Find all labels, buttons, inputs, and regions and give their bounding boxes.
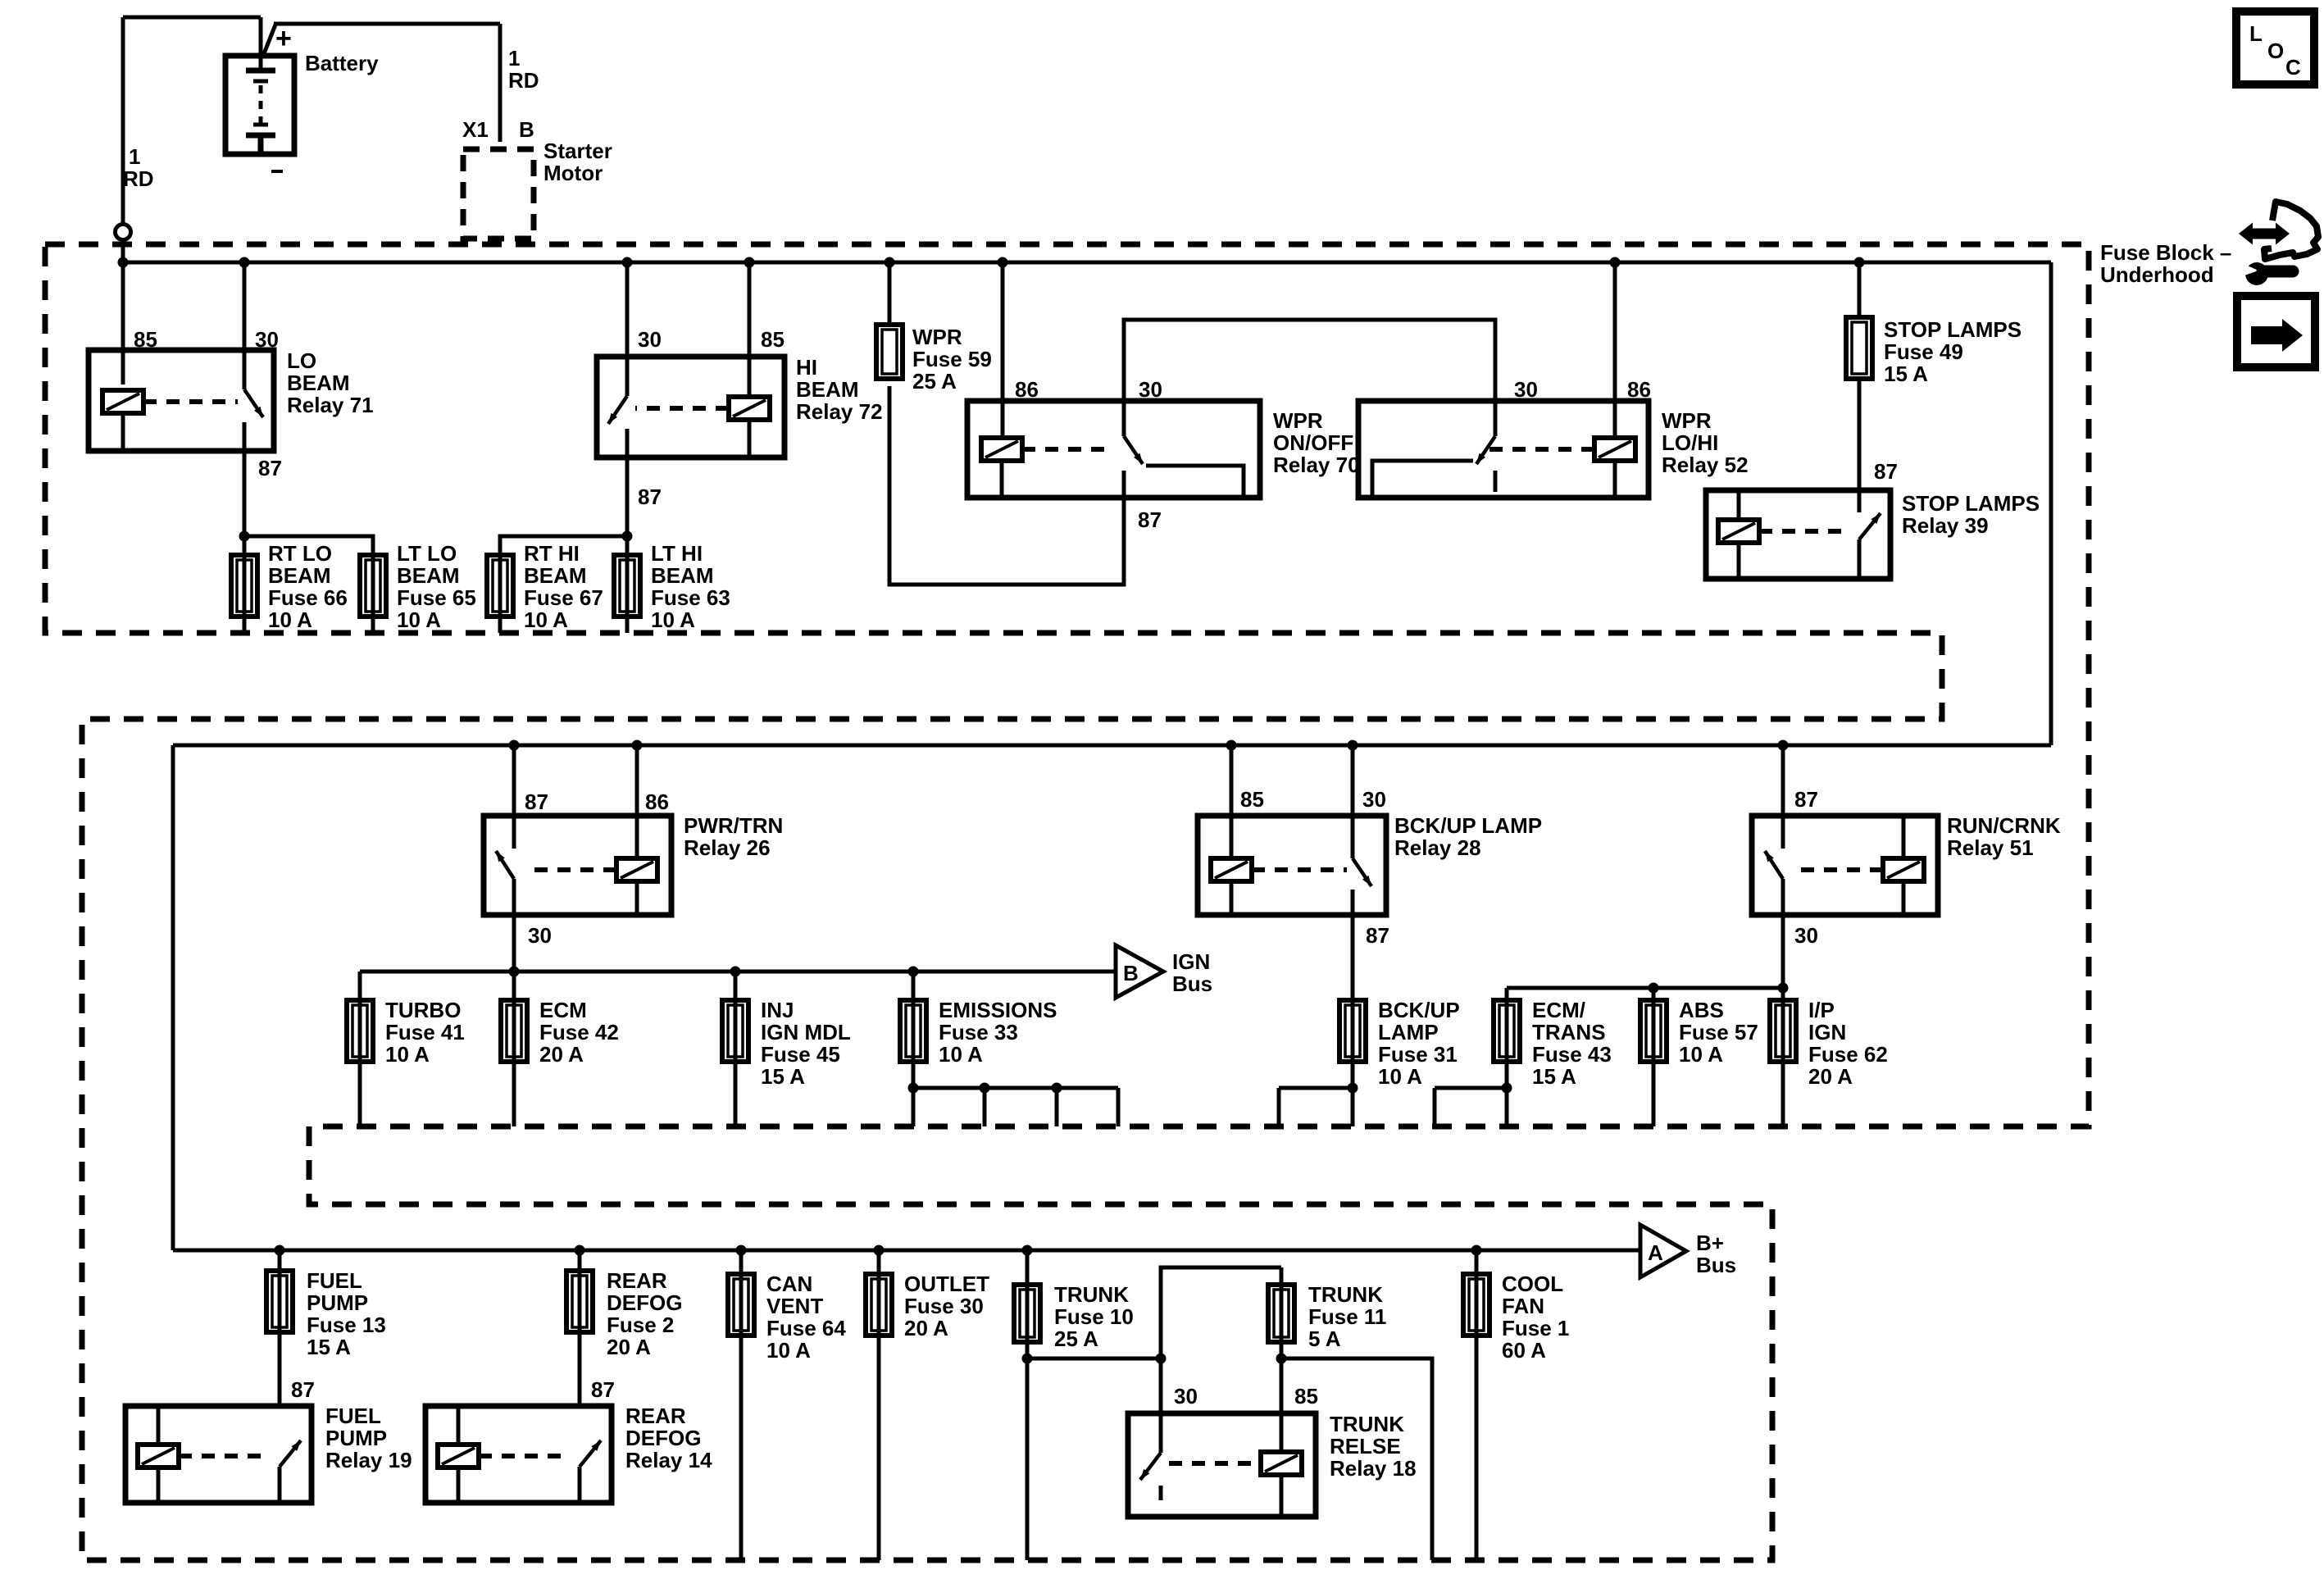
- svg-text:Bus: Bus: [1172, 972, 1212, 996]
- svg-text:FAN: FAN: [1502, 1294, 1544, 1318]
- fuse 64 CAN VENT: [728, 1274, 754, 1336]
- wire top bus right drop to middle bus: [2049, 262, 2053, 745]
- relay 72 coil: [729, 397, 770, 420]
- svg-text:Fuse 66: Fuse 66: [268, 585, 348, 610]
- fuse 49 STOP LAMPS: [1846, 317, 1872, 379]
- battery B1 negative plate short: [253, 123, 268, 127]
- svg-text:10 A: 10 A: [766, 1338, 811, 1363]
- junction IGN bus at fuse33: [908, 967, 919, 977]
- svg-text:LT LO: LT LO: [397, 541, 457, 566]
- svg-text:Fuse 31: Fuse 31: [1378, 1042, 1458, 1067]
- svg-text:BEAM: BEAM: [397, 563, 460, 588]
- fuse 1 COOL FAN: [1463, 1274, 1489, 1336]
- junction B+ bus at fuse30: [874, 1245, 885, 1256]
- wire battery positive drop: [259, 17, 263, 71]
- junction emissions manifold c: [1052, 1083, 1062, 1094]
- svg-text:85: 85: [1294, 1384, 1318, 1408]
- svg-text:IGN: IGN: [1172, 949, 1210, 974]
- wire fuse57 through: [1652, 988, 1656, 1126]
- svg-text:20 A: 20 A: [607, 1335, 651, 1359]
- relay 51 switch stub: [1781, 879, 1785, 915]
- label fuse 42: [539, 998, 619, 1067]
- relay 70 coil: [981, 438, 1022, 461]
- wire fuse30 through: [877, 1250, 881, 1560]
- label fuse 11: [1308, 1282, 1386, 1351]
- relay 72 switch blade: [608, 396, 627, 424]
- wire run/crnk sub-bus: [1507, 986, 1783, 990]
- svg-text:87: 87: [525, 789, 548, 814]
- label fuse 2: [607, 1268, 682, 1359]
- junction top bus at relay71 pin30: [239, 257, 250, 268]
- svg-text:25 A: 25 A: [912, 369, 957, 394]
- wire fuse42 through: [512, 972, 516, 1126]
- svg-text:PUMP: PUMP: [325, 1426, 387, 1450]
- svg-text:VENT: VENT: [766, 1294, 823, 1318]
- svg-text:BEAM: BEAM: [268, 563, 331, 588]
- junction middle bus at relay28 pin85: [1226, 740, 1237, 751]
- svg-text:INJ: INJ: [761, 998, 794, 1022]
- relay 14 switch blade: [580, 1440, 601, 1467]
- svg-text:10 A: 10 A: [1679, 1042, 1723, 1067]
- svg-text:30: 30: [1139, 377, 1162, 402]
- relay 14 switch stub: [578, 1467, 582, 1503]
- svg-text:10 A: 10 A: [385, 1042, 430, 1067]
- relay 52 switch stub: [1494, 471, 1498, 492]
- label fuse 45: [761, 998, 851, 1089]
- label fuse 49: [1884, 317, 2022, 386]
- svg-text:15 A: 15 A: [307, 1335, 351, 1359]
- svg-text:87: 87: [1794, 787, 1818, 812]
- wire fuse64 through: [739, 1250, 744, 1560]
- wire fuse11 branch right: [1281, 1358, 1432, 1560]
- svg-text:87: 87: [258, 456, 282, 480]
- wire fuse66 drop: [243, 536, 247, 633]
- label B+ Bus: [1696, 1231, 1736, 1277]
- svg-text:OUTLET: OUTLET: [904, 1272, 989, 1296]
- svg-text:BEAM: BEAM: [287, 371, 350, 395]
- junction top bus at relay52 pin86: [1610, 257, 1621, 268]
- wire fuse41 through: [358, 1000, 362, 1126]
- relay 52 dashed link: [1485, 447, 1594, 452]
- relay 70 switch stub: [1122, 471, 1126, 498]
- junction middle bus at relay26 pin86: [632, 740, 643, 751]
- svg-text:1: 1: [129, 144, 140, 169]
- fuse 11 TRUNK: [1268, 1285, 1294, 1342]
- wire fuse67 drop: [498, 555, 503, 633]
- relay 70 coil lower wire: [1000, 461, 1004, 498]
- svg-text:TRUNK: TRUNK: [1330, 1412, 1404, 1436]
- wire fuse63 drop: [625, 536, 630, 633]
- junction middle bus at relay26 pin87: [509, 740, 520, 751]
- wire fuse31 through: [1351, 1000, 1355, 1126]
- fuse 59 WPR: [876, 325, 903, 379]
- wire middle bus: [173, 744, 2051, 748]
- label fuse 65: [397, 541, 476, 632]
- junction relay71 output: [239, 531, 250, 542]
- wire sub-bus drop to fuse43: [1505, 988, 1509, 1000]
- junction top bus at relay70 pin86: [998, 257, 1008, 268]
- relay 26 pin86 wire: [635, 745, 639, 858]
- wire fuse49 to relay39: [1858, 379, 1862, 512]
- junction top bus at relay72 pin30: [622, 257, 633, 268]
- relay 14 dashed link: [479, 1454, 571, 1458]
- svg-text:Fuse 64: Fuse 64: [766, 1316, 846, 1340]
- svg-text:O: O: [2267, 39, 2284, 63]
- wire IGN bus: [360, 970, 1116, 974]
- relay 26 PWR/TRN box: [484, 816, 671, 915]
- relay 39 coil: [1718, 520, 1759, 543]
- relay 28 pin85 wire: [1230, 745, 1234, 858]
- battery B1 negative stub: [258, 135, 264, 154]
- relay 28 coil: [1211, 858, 1252, 881]
- wire fuse49 drop: [1858, 262, 1862, 317]
- junction B+ bus at fuse13: [275, 1245, 285, 1256]
- junction relay18 pin30 tee: [1156, 1354, 1167, 1364]
- svg-text:CAN: CAN: [766, 1272, 812, 1296]
- wire battery positive feed to fuse block (1 RD left branch): [123, 16, 261, 20]
- fuse 30 OUTLET: [866, 1274, 892, 1336]
- relay 52 contact 87 path: [1372, 461, 1473, 495]
- svg-text:LO/HI: LO/HI: [1662, 430, 1718, 455]
- relay 52 WPR LO/HI box: [1358, 401, 1649, 498]
- relay 26 switch stub: [512, 879, 516, 915]
- svg-text:10 A: 10 A: [268, 607, 312, 632]
- svg-text:Relay 71: Relay 71: [287, 393, 374, 417]
- junction emissions manifold a: [908, 1083, 919, 1094]
- svg-text:86: 86: [1627, 377, 1651, 402]
- svg-text:RD: RD: [508, 68, 539, 93]
- svg-text:10 A: 10 A: [397, 607, 441, 632]
- junction relay72 output: [622, 531, 633, 542]
- label fuse 66: [268, 541, 348, 632]
- label fuse 59: [912, 325, 992, 394]
- relay 14 REAR DEFOG box: [425, 1406, 612, 1503]
- svg-text:EMISSIONS: EMISSIONS: [939, 998, 1057, 1022]
- wire emissions manifold: [913, 1086, 1118, 1090]
- junction top bus at fuse59: [885, 257, 895, 268]
- svg-text:15 A: 15 A: [1532, 1064, 1576, 1089]
- relay 52 pin86 wire: [1613, 262, 1617, 438]
- svg-text:87: 87: [591, 1377, 615, 1402]
- svg-text:TURBO: TURBO: [385, 998, 461, 1022]
- svg-text:A: A: [1648, 1240, 1663, 1265]
- relay 19 dashed link: [179, 1454, 271, 1458]
- relay 72 dashed link: [635, 406, 729, 411]
- svg-text:20 A: 20 A: [539, 1042, 584, 1067]
- svg-text:Fuse 30: Fuse 30: [904, 1294, 984, 1318]
- label fuse 33: [939, 998, 1057, 1067]
- relay 28 coil lower wire: [1230, 881, 1234, 915]
- relay 70 WPR ON/OFF box: [967, 401, 1260, 498]
- svg-text:20 A: 20 A: [1808, 1064, 1853, 1089]
- svg-text:30: 30: [255, 327, 279, 352]
- label fuse 67: [524, 541, 603, 632]
- svg-text:RT HI: RT HI: [524, 541, 580, 566]
- wire fuse43 stub: [1433, 1088, 1437, 1126]
- svg-text:ON/OFF: ON/OFF: [1273, 430, 1353, 455]
- svg-text:FUEL: FUEL: [307, 1268, 362, 1293]
- label relay 70 name: [1273, 408, 1360, 477]
- svg-text:87: 87: [638, 485, 662, 509]
- svg-text:Fuse 11: Fuse 11: [1308, 1304, 1386, 1329]
- svg-text:Fuse 2: Fuse 2: [607, 1313, 674, 1337]
- junction middle bus at relay51 pin87: [1778, 740, 1789, 751]
- relay 18 coil: [1261, 1452, 1302, 1475]
- relay 71 coil lower wire: [121, 413, 125, 451]
- wire battery positive to starter motor diagonal: [263, 25, 275, 56]
- fuse 45 INJ IGN MDL: [722, 1000, 748, 1062]
- wire middle bus left drop to B+ bus: [171, 745, 175, 1250]
- wire relay72 output to fuse67: [500, 536, 627, 555]
- svg-text:Fuse 63: Fuse 63: [651, 585, 730, 610]
- svg-text:30: 30: [1514, 377, 1538, 402]
- junction top bus at relay72 pin85: [744, 257, 755, 268]
- svg-text:87: 87: [291, 1377, 315, 1402]
- relay 19 switch blade: [280, 1440, 301, 1467]
- svg-text:1: 1: [508, 46, 520, 71]
- svg-text:IGN MDL: IGN MDL: [761, 1020, 851, 1044]
- relay 72 coil feed wire: [748, 262, 752, 397]
- svg-text:ECM/: ECM/: [1532, 998, 1585, 1022]
- relay 19 FUEL PUMP box: [125, 1406, 312, 1503]
- svg-text:5 A: 5 A: [1308, 1326, 1341, 1351]
- label relay 26 name: [684, 813, 783, 860]
- icon LOC box: [2236, 11, 2314, 84]
- svg-text:Relay 51: Relay 51: [1947, 835, 2034, 860]
- relay 51 switch blade: [1765, 851, 1783, 879]
- battery B1 positive plate short: [253, 80, 268, 84]
- relay 39 switch blade: [1859, 513, 1881, 539]
- relay 19 coil lower wire: [157, 1468, 161, 1503]
- svg-text:Fuse 13: Fuse 13: [307, 1313, 386, 1337]
- svg-text:60 A: 60 A: [1502, 1338, 1546, 1363]
- svg-text:TRANS: TRANS: [1532, 1020, 1606, 1044]
- wire relay51 pin30 down: [1781, 915, 1785, 1000]
- wire emissions stub d: [1117, 1088, 1121, 1126]
- svg-text:WPR: WPR: [912, 325, 962, 349]
- fuse 41 TURBO: [347, 1000, 373, 1062]
- relay 39 STOP LAMPS box: [1706, 490, 1890, 579]
- relay 52 coil lower wire: [1613, 461, 1617, 498]
- label relay 71 name: [287, 348, 374, 417]
- relay 26 coil: [616, 858, 657, 881]
- label relay 39 name: [1902, 491, 2040, 538]
- label fuse 57: [1679, 998, 1758, 1067]
- relay 14 coil upper wire: [457, 1406, 461, 1445]
- label fuse 31: [1378, 998, 1460, 1089]
- wire fuse43 manifold: [1435, 1086, 1507, 1090]
- svg-text:Relay 39: Relay 39: [1902, 513, 1989, 538]
- junction sub-bus fuse57: [1649, 983, 1659, 994]
- svg-text:RUN/CRNK: RUN/CRNK: [1947, 813, 2061, 838]
- wire starter motor drop: [498, 24, 503, 142]
- svg-text:DEFOG: DEFOG: [607, 1290, 682, 1315]
- relay 19 switch stub: [278, 1467, 282, 1503]
- wire fuse10 through: [1026, 1250, 1030, 1560]
- svg-text:PUMP: PUMP: [307, 1290, 368, 1315]
- label fuse 10: [1054, 1282, 1134, 1351]
- wire B+ bus: [173, 1249, 1640, 1253]
- svg-text:Relay 14: Relay 14: [625, 1448, 712, 1472]
- junction B+ bus at fuse64: [736, 1245, 747, 1256]
- relay 52 coil: [1594, 438, 1635, 461]
- label fuse 63: [651, 541, 730, 632]
- fuse 43 ECM/TRANS: [1494, 1000, 1520, 1062]
- svg-text:10 A: 10 A: [1378, 1064, 1422, 1089]
- relay 28 switch stub: [1351, 890, 1355, 915]
- label fuse 41: [385, 998, 465, 1067]
- svg-text:Fuse 43: Fuse 43: [1532, 1042, 1612, 1067]
- svg-text:RD: RD: [123, 166, 154, 191]
- starter motor dashed box: [463, 149, 534, 239]
- wire fuse31 stub: [1277, 1088, 1281, 1126]
- label relay 14 name: [625, 1404, 712, 1472]
- battery B1 box: [225, 56, 294, 154]
- wire fuse59 drop: [888, 262, 892, 325]
- relay 18 switch stub: [1159, 1486, 1163, 1500]
- svg-text:X1: X1: [462, 117, 489, 142]
- battery B1 internal dashed link: [259, 85, 263, 123]
- relay 28 switch blade: [1353, 858, 1371, 886]
- svg-text:Battery: Battery: [305, 51, 379, 75]
- battery B1 positive plate long: [246, 68, 275, 74]
- svg-text:BEAM: BEAM: [796, 377, 859, 402]
- wire relay71 output to fuse65: [244, 536, 373, 555]
- relay 72 coil lower wire: [748, 420, 752, 457]
- junction emissions manifold b: [980, 1083, 990, 1094]
- svg-text:BEAM: BEAM: [651, 563, 714, 588]
- relay 18 switch blade: [1140, 1453, 1161, 1480]
- svg-text:BCK/UP LAMP: BCK/UP LAMP: [1394, 813, 1542, 838]
- svg-text:RT LO: RT LO: [268, 541, 332, 566]
- svg-text:Fuse 41: Fuse 41: [385, 1020, 465, 1044]
- svg-text:FUEL: FUEL: [325, 1404, 381, 1428]
- wire battery to starter motor horizontal (1 RD): [274, 22, 500, 26]
- svg-text:Fuse 62: Fuse 62: [1808, 1042, 1888, 1067]
- svg-text:15 A: 15 A: [761, 1064, 805, 1089]
- relay 39 coil wire upper: [1737, 490, 1741, 520]
- svg-text:BEAM: BEAM: [524, 563, 587, 588]
- junction top bus at battery feed: [118, 257, 129, 268]
- junction fuse31 manifold: [1348, 1083, 1358, 1094]
- svg-text:10 A: 10 A: [939, 1042, 983, 1067]
- fuse 42 ECM: [501, 1000, 527, 1062]
- svg-text:I/P: I/P: [1808, 998, 1835, 1022]
- svg-text:30: 30: [1362, 787, 1386, 812]
- junction IGN bus at fuse42: [509, 967, 520, 977]
- label fuse 1: [1502, 1272, 1569, 1363]
- battery B1 negative plate long: [246, 133, 275, 139]
- wire relay72 pin87 down: [625, 457, 630, 536]
- svg-text:C: C: [2285, 55, 2301, 80]
- label relay 28 name: [1394, 813, 1542, 860]
- fuse 67 RT HI BEAM: [487, 555, 513, 617]
- wire fuse11 to relay18 pin85: [1280, 1267, 1284, 1452]
- svg-text:Relay 70: Relay 70: [1273, 453, 1360, 477]
- svg-text:L: L: [2249, 21, 2263, 46]
- fuse 63 LT HI BEAM: [614, 555, 640, 617]
- relay 71 switch blade: [244, 389, 263, 417]
- relay 72 switch stub: [625, 429, 630, 457]
- wire emissions stub b: [983, 1088, 987, 1126]
- svg-text:ABS: ABS: [1679, 998, 1724, 1022]
- relay 71 dashed link: [143, 399, 238, 404]
- wire relay26 pin30 down: [512, 915, 516, 972]
- relay 18 coil lower wire: [1280, 1475, 1284, 1517]
- wire top B+ bus: [123, 261, 2051, 265]
- wire fuse43 through: [1505, 1000, 1509, 1126]
- svg-text:+: +: [275, 23, 292, 54]
- svg-text:Fuse 45: Fuse 45: [761, 1042, 840, 1067]
- relay 39 switch stub: [1858, 539, 1862, 579]
- relay 51 coil lower wire: [1902, 881, 1906, 915]
- wire fuse10 to relay18 pin30: [1027, 1357, 1161, 1361]
- wire fuse33 through: [912, 972, 916, 1126]
- junction B+ bus at fuse2: [575, 1245, 585, 1256]
- relay 14 coil lower wire: [457, 1468, 461, 1503]
- svg-text:85: 85: [761, 327, 785, 352]
- svg-text:Fuse 67: Fuse 67: [524, 585, 603, 610]
- fuse 13 FUEL PUMP: [266, 1271, 293, 1332]
- svg-text:REAR: REAR: [607, 1268, 667, 1293]
- junction sub-bus fuse62: [1778, 983, 1789, 994]
- label relay 19 name: [325, 1404, 412, 1472]
- fuse 57 ABS: [1640, 1000, 1667, 1062]
- fuse 2 REAR DEFOG: [566, 1271, 593, 1332]
- svg-text:B: B: [519, 117, 534, 142]
- svg-text:87: 87: [1366, 923, 1389, 948]
- junction B+ bus at fuse1: [1471, 1245, 1482, 1256]
- relay 28 BCK/UP LAMP box: [1198, 816, 1386, 915]
- svg-text:WPR: WPR: [1273, 408, 1323, 433]
- svg-text:15 A: 15 A: [1884, 362, 1928, 386]
- svg-text:Relay 72: Relay 72: [796, 399, 883, 424]
- fuse 62 I/P IGN: [1770, 1000, 1796, 1062]
- wire splice to bus and relay 71 pin 85: [121, 239, 125, 385]
- svg-text:LT HI: LT HI: [651, 541, 703, 566]
- node S200 splice open circle: [116, 225, 131, 240]
- relay 51 coil: [1883, 858, 1924, 881]
- svg-text:30: 30: [528, 923, 552, 948]
- svg-text:TRUNK: TRUNK: [1308, 1282, 1383, 1307]
- svg-text:25 A: 25 A: [1054, 1326, 1098, 1351]
- relay 28 pin30 wire: [1351, 745, 1355, 858]
- wire fuse31 manifold: [1279, 1086, 1353, 1090]
- svg-text:STOP LAMPS: STOP LAMPS: [1902, 491, 2040, 516]
- svg-text:Fuse 57: Fuse 57: [1679, 1020, 1758, 1044]
- label IGN Bus: [1172, 949, 1212, 996]
- label fuse 62: [1808, 998, 1888, 1089]
- svg-text:B: B: [1123, 961, 1139, 985]
- svg-text:86: 86: [645, 789, 669, 814]
- svg-text:HI: HI: [796, 355, 817, 380]
- junction IGN bus at fuse45: [730, 967, 741, 977]
- relay 71 coil: [102, 390, 143, 413]
- svg-text:LO: LO: [287, 348, 316, 373]
- IGN bus triangle B: [1116, 945, 1163, 998]
- svg-text:RELSE: RELSE: [1330, 1434, 1401, 1458]
- svg-text:Fuse 65: Fuse 65: [397, 585, 476, 610]
- fuse 66 RT LO BEAM: [231, 555, 257, 617]
- junction fuse11 output: [1276, 1354, 1287, 1364]
- label fuse 43: [1532, 998, 1612, 1089]
- label fuse 30: [904, 1272, 989, 1340]
- B+ bus triangle A: [1640, 1225, 1686, 1277]
- wire emissions stub c: [1055, 1088, 1059, 1126]
- svg-text:IGN: IGN: [1808, 1020, 1846, 1044]
- relay 72 pin 30 wire: [625, 262, 630, 396]
- relay 70 pin86 wire: [1001, 262, 1005, 438]
